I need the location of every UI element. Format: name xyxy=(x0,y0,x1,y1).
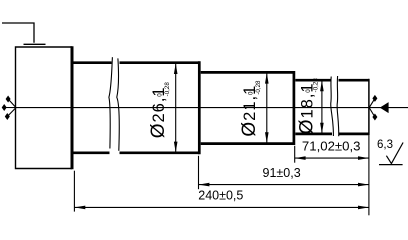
svg-text:-0,28: -0,28 xyxy=(255,80,262,95)
svg-text:240±0,5: 240±0,5 xyxy=(198,189,243,203)
svg-text:0: 0 xyxy=(305,89,312,93)
svg-text:-0,28: -0,28 xyxy=(313,78,320,93)
svg-text:6,3: 6,3 xyxy=(377,139,393,151)
svg-text:0: 0 xyxy=(156,93,163,97)
svg-text:91±0,3: 91±0,3 xyxy=(263,166,301,180)
svg-text:0: 0 xyxy=(247,91,254,95)
svg-text:71,02±0,3: 71,02±0,3 xyxy=(302,138,361,153)
svg-text:-0,28: -0,28 xyxy=(164,82,171,97)
